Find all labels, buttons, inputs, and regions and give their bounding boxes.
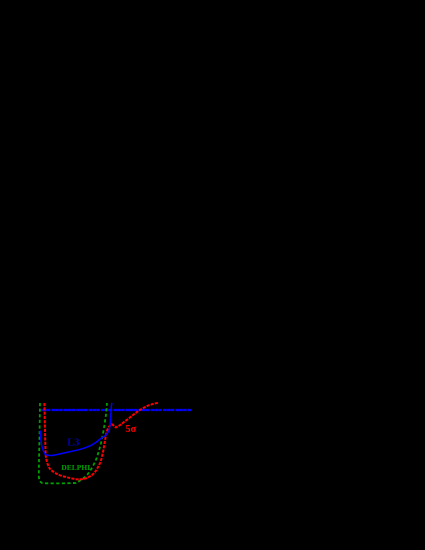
blue dashed horizontal line (expected background level) [41, 409, 192, 411]
svg-text:L3: L3 [67, 438, 79, 449]
green dashed curve DELPHI (bathtub) [39, 403, 107, 483]
svg-text:DELPHI: DELPHI [61, 463, 90, 472]
svg-text:5σ: 5σ [125, 424, 136, 435]
red dotted curve 5sigma [44, 403, 158, 480]
blue solid curve L3 [40, 403, 112, 456]
